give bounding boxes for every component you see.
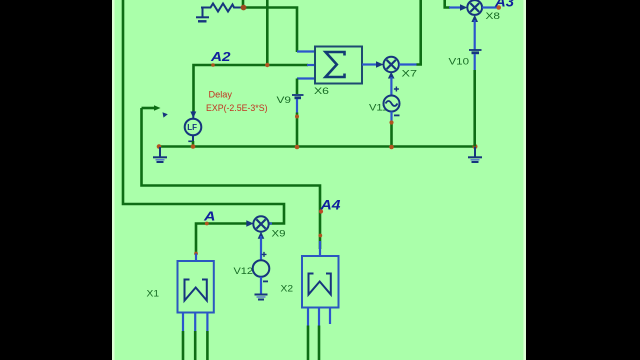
X2 bottom pins (308, 308, 330, 326)
arrow up into X9 bottom (258, 232, 265, 239)
ground bus wire (159, 145, 476, 148)
source LF (192, 111, 194, 119)
V11 top lead (390, 77, 392, 96)
svg-text:V9: V9 (277, 95, 292, 106)
multiplier X8 (467, 0, 482, 15)
pin stub X2 top (319, 241, 321, 256)
X2 pin wires to bottom edge (308, 326, 319, 360)
X1 bottom pins (183, 313, 207, 332)
svg-text:X2: X2 (281, 284, 294, 295)
arrow into X9 (246, 220, 253, 227)
svg-text:A2: A2 (210, 49, 232, 64)
V11 bottom lead (390, 112, 392, 122)
dot on X1 input wire (194, 252, 198, 256)
X9 bottom lead (260, 236, 262, 261)
wire node A to X9 input (196, 224, 247, 255)
node A4 anchor dot (319, 209, 323, 213)
vertical wire off top to node A2 (266, 0, 269, 65)
small polarity mark (163, 112, 168, 117)
node A2 anchor dot (211, 63, 215, 67)
multiplier X9 (253, 216, 268, 231)
schematic background (112, 0, 526, 360)
X7 output wire to top (399, 63, 417, 65)
X8 output wire (482, 6, 497, 8)
vertical wire off top at resistor junction (242, 0, 245, 8)
sum block X6 (315, 47, 362, 84)
ground at left end of bus (153, 147, 167, 162)
X2 inner symbol (309, 274, 331, 295)
V11 minus mark (394, 114, 400, 116)
arrow into X8 (460, 4, 467, 11)
V9 leads (296, 99, 298, 113)
svg-text:X6: X6 (314, 86, 329, 97)
wire node A2 to sum middle input, down to LF source (194, 65, 309, 114)
svg-text:X1: X1 (147, 289, 160, 300)
resistor R1 (201, 4, 241, 12)
svg-text:X8: X8 (486, 11, 501, 22)
V12 bottom lead (260, 277, 262, 294)
svg-text:A3: A3 (494, 0, 514, 10)
ground at resistor (196, 8, 209, 22)
wire net A4 loop: vertical from top, horizontal, down to X9 output (123, 0, 284, 224)
svg-text:EXP(-2.5E-3*S): EXP(-2.5E-3*S) (206, 103, 268, 113)
ground bus junction dots (157, 144, 162, 149)
svg-text:Delay: Delay (209, 90, 233, 101)
V12 minus mark (263, 280, 268, 282)
source V12 (253, 260, 270, 277)
battery V9 (292, 94, 304, 96)
V11 plus mark (394, 87, 399, 92)
sigma symbol (326, 52, 345, 77)
multiplier X7 (384, 57, 399, 72)
svg-text:X9: X9 (272, 229, 286, 240)
block X1 (178, 261, 214, 313)
X9 output stub (269, 222, 273, 224)
junction dot at resistor output (241, 5, 247, 11)
X1 pin wires to bottom edge (183, 331, 207, 360)
dot on V11 lead (389, 120, 393, 124)
LF bottom lead (192, 135, 194, 141)
block X2 (302, 256, 339, 308)
X1 inner symbol (185, 280, 207, 301)
X8 bottom lead (474, 20, 476, 50)
blue stub sum lower input (297, 77, 315, 79)
wire from stub down and across to X2 input (142, 108, 321, 249)
blue stub sum middle input (307, 64, 315, 66)
LF minus mark (188, 140, 193, 142)
battery V10 (469, 49, 482, 51)
top wire from resistor to sum upper input (243, 8, 298, 53)
arrowhead on stub (154, 105, 161, 111)
arrow up into X7 bottom (388, 72, 395, 79)
svg-text:A4: A4 (319, 197, 340, 213)
blue stub sum upper input (297, 50, 315, 52)
ground below V12 (255, 295, 268, 300)
X1 top pin stub (195, 254, 197, 262)
arrow down on LF top lead (190, 112, 196, 119)
ground at right end of bus (468, 147, 482, 162)
svg-text:X7: X7 (402, 69, 418, 80)
dot on X2 input wire (318, 234, 322, 238)
V10 bottom lead (474, 54, 476, 70)
arrow into X7 (376, 61, 383, 68)
sine source V11 (384, 96, 400, 112)
node A3 dot (496, 5, 501, 10)
wire sum lower input down to V9 (296, 79, 299, 95)
svg-text:V10: V10 (449, 57, 470, 68)
svg-text:V12: V12 (234, 266, 254, 277)
node A anchor dot (205, 222, 209, 226)
node A2 junction dot (265, 63, 269, 67)
V12 plus mark (262, 252, 267, 257)
X6 output stub (362, 63, 377, 65)
dot on V9 lead (295, 115, 299, 119)
svg-text:A: A (203, 209, 216, 224)
arrow up into X8 bottom (471, 15, 478, 22)
X8 input wire from top (445, 0, 450, 8)
wire stub with arrow near LF plus terminal (142, 107, 157, 110)
svg-text:LF: LF (187, 123, 197, 132)
